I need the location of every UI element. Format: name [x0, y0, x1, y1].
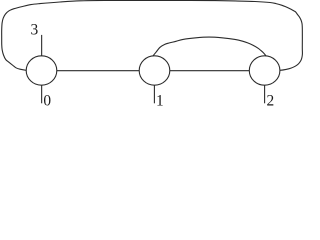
wire: leg 2 (down from node 2) [264, 85, 266, 103]
svg-text:0: 0 [43, 93, 51, 110]
node 1 [139, 56, 170, 85]
wire: leg 0 (down from node 0) [41, 85, 43, 103]
svg-text:2: 2 [267, 93, 275, 110]
wire: edge node1-node2 arc [153, 37, 266, 56]
wire: edge node0-node1 [57, 70, 139, 72]
wire: leg 1 (down from node 1) [153, 85, 155, 103]
wire: leg 3 (up from node 0) [41, 35, 43, 56]
node 2 [249, 56, 280, 85]
node 0 [26, 56, 57, 85]
wire: edge node1-node2 straight [170, 70, 250, 72]
svg-text:3: 3 [31, 21, 39, 38]
wire: outer loop edge node0-node2 [2, 0, 303, 70]
svg-text:1: 1 [156, 93, 164, 110]
